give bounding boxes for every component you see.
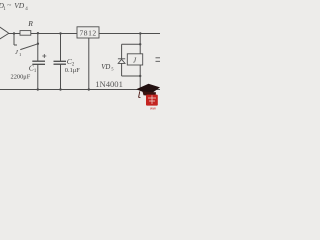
wire vertical node C to C2 bbox=[60, 34, 62, 62]
ground rail bbox=[0, 89, 160, 91]
capacitor C1 plates bbox=[32, 61, 45, 64]
wire diode bottom lead bbox=[121, 63, 123, 76]
relay contact J1 (switch arm) bbox=[20, 44, 38, 50]
label VD5 bbox=[101, 64, 114, 72]
junction rail C2 bbox=[59, 88, 61, 90]
junction rail C1 bbox=[37, 88, 39, 90]
junction rail relay bbox=[139, 88, 141, 90]
label C2 bbox=[67, 57, 75, 68]
diode VD5 symbol bbox=[118, 59, 125, 64]
junction diode branch bottom bbox=[139, 75, 141, 77]
svg-text:1: 1 bbox=[19, 52, 21, 57]
background bbox=[0, 0, 160, 110]
cut-off label dashes right edge bbox=[156, 58, 161, 62]
junction rail 7812 bbox=[88, 88, 90, 90]
junction node A bbox=[13, 32, 15, 34]
wire below C2 bbox=[60, 64, 62, 89]
capacitor C2 plates bbox=[54, 61, 67, 64]
wire diode bottom to coil bottom bbox=[122, 75, 141, 77]
C1 polarity plus bbox=[42, 54, 46, 58]
svg-text:~: ~ bbox=[7, 1, 11, 10]
svg-text:VD: VD bbox=[14, 1, 25, 10]
junction node B bbox=[37, 32, 39, 34]
svg-text:2200μF: 2200μF bbox=[11, 73, 31, 80]
junction diode branch top bbox=[139, 43, 141, 45]
svg-text:R: R bbox=[27, 19, 33, 28]
junction node C bbox=[59, 32, 61, 34]
wire vertical node B to C1 bbox=[37, 34, 39, 62]
bridge rectifier corner (cut off at left edge) bbox=[0, 27, 9, 40]
wire below relay coil bbox=[139, 65, 141, 90]
resistor R bbox=[20, 31, 31, 36]
svg-text:ww: ww bbox=[150, 106, 156, 111]
junction switch arm bbox=[37, 43, 39, 45]
junction node D bbox=[139, 32, 141, 34]
wire below C1 bbox=[37, 64, 39, 89]
relay coil J box bbox=[127, 54, 142, 65]
label J1 bbox=[15, 49, 21, 57]
wire vertical output node D down to relay coil bbox=[139, 34, 141, 54]
svg-text:VD: VD bbox=[101, 64, 110, 71]
watermark logo cap bbox=[136, 84, 160, 98]
label C1 bbox=[29, 63, 37, 74]
wire vertical from node A to switch bbox=[14, 34, 17, 46]
svg-text:0.1μF: 0.1μF bbox=[65, 67, 80, 74]
regulator U1 7812 box bbox=[77, 27, 99, 38]
wire output bbox=[99, 33, 160, 35]
wire main input bbox=[8, 33, 77, 35]
wire horizontal to diode top bbox=[122, 43, 141, 45]
wire 7812 ground pin bbox=[88, 38, 90, 90]
svg-text:7812: 7812 bbox=[80, 29, 97, 38]
watermark logo red character bbox=[146, 95, 158, 106]
label VD1~VD4 bbox=[0, 1, 28, 12]
wire diode top lead bbox=[121, 44, 123, 59]
svg-text:1N4001: 1N4001 bbox=[95, 79, 123, 89]
